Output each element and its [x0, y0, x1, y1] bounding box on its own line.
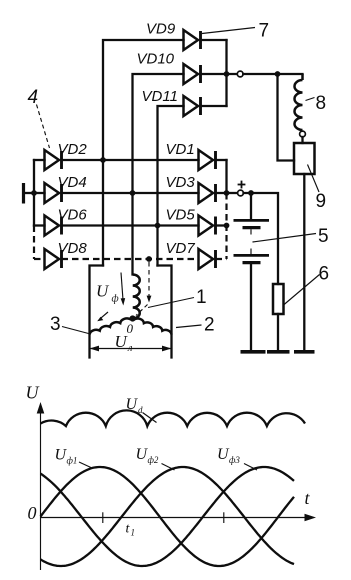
svg-text:U: U — [115, 332, 129, 351]
battery GB (5) cell 1 — [234, 220, 270, 227]
label 1 with leader to middle coil — [148, 287, 207, 308]
axis U (vertical) — [37, 402, 45, 570]
diode VD11 — [184, 96, 201, 116]
ground (chassis bar under resistor) — [267, 350, 290, 354]
terminal field brush (circle) — [300, 131, 306, 137]
svg-text:1: 1 — [196, 287, 207, 308]
diode VD10 — [184, 64, 201, 84]
stator coil phase 1 (left) — [90, 318, 131, 334]
svg-text:d: d — [138, 405, 143, 415]
axis t (horizontal) — [41, 514, 317, 522]
wire field terminal to field winding — [243, 73, 302, 75]
label Ud with leader — [126, 396, 157, 423]
svg-text:VD3: VD3 — [166, 174, 196, 191]
bus negative dashed continuation to VD8 — [33, 226, 35, 260]
node 0 (star point) — [130, 315, 136, 321]
curve phase voltage U-ph1 — [41, 467, 295, 566]
label 9 with leader to regulator — [308, 165, 327, 213]
diode VD9 — [184, 30, 201, 50]
diode VD2 — [45, 150, 62, 170]
diode VD5 — [199, 216, 216, 236]
voltage regulator 9 (box) — [294, 143, 315, 174]
dimension line U-line (winding span) — [90, 346, 172, 352]
svg-text:5: 5 — [318, 226, 329, 247]
tick t1 — [102, 512, 104, 523]
wire row VD1 cathode stub — [216, 159, 227, 161]
wire row VD2 anode stub — [34, 159, 45, 161]
diode VD8 — [45, 249, 62, 269]
wire row VD3 cathode stub — [216, 192, 227, 194]
junction battery tap — [248, 190, 254, 196]
stator winding outline left — [90, 266, 104, 358]
stator winding outline right — [158, 266, 172, 358]
svg-text:ф: ф — [112, 294, 119, 305]
label 6 with leader to resistor — [284, 264, 330, 306]
junction positive bus / VD5 — [224, 223, 230, 229]
bus positive (right, cathodes VD1 VD3) — [225, 160, 227, 193]
svg-text:VD4: VD4 — [58, 174, 87, 191]
diode VD6 — [45, 216, 62, 236]
svg-text:U: U — [96, 282, 110, 301]
svg-text:2: 2 — [204, 315, 215, 336]
wire brush to regulator — [301, 137, 303, 143]
label 7 with leader to VD9 — [202, 21, 269, 42]
label U-ph1 with leader — [55, 447, 93, 469]
curve phase voltage U-ph3 — [41, 467, 295, 566]
label 5 with leader to battery — [253, 226, 329, 247]
svg-text:0: 0 — [28, 503, 37, 523]
junction phase 3 / row VD6-VD5 — [155, 223, 161, 229]
svg-text:VD7: VD7 — [166, 240, 196, 257]
svg-text:ф1: ф1 — [67, 456, 78, 466]
label 4 with dashed leader to VD2 — [28, 87, 50, 148]
curve rectified output Ud (ripple) — [41, 410, 306, 426]
wire row VD4 anode stub — [34, 192, 45, 194]
wire row VD6-VD5 phase link — [62, 224, 199, 226]
svg-text:VD8: VD8 — [58, 240, 88, 257]
bus positive dashed continuation (VD5 VD7) — [225, 193, 227, 259]
diode VD1 — [199, 150, 216, 170]
wire ground stub — [24, 192, 35, 194]
wire phase 3 (from VD11 anode down to stator winding) — [158, 106, 184, 266]
svg-text:3: 3 — [50, 314, 61, 335]
stator coil phase 2 (middle) — [133, 275, 140, 319]
diode VD4 — [45, 183, 62, 203]
svg-text:VD9: VD9 — [146, 21, 176, 38]
ground (chassis bar, left) — [22, 183, 25, 204]
svg-text:VD5: VD5 — [166, 207, 196, 224]
wire phase 1 (from VD9 anode down to stator winding) — [103, 40, 184, 266]
arrow current in left coil — [97, 312, 108, 321]
wire phase 2 (from VD10 anode down to stator middle coil) — [133, 74, 184, 275]
junction field wire / regulator branch — [275, 71, 281, 77]
wire VD11 cathode to auxiliary bus — [202, 105, 227, 107]
svg-text:VD2: VD2 — [58, 141, 88, 158]
svg-text:9: 9 — [316, 191, 327, 212]
wire row VD2-VD1 phase link — [62, 159, 199, 161]
inductor 8 (field winding) — [301, 74, 304, 80]
ground (chassis bar under regulator) — [294, 350, 315, 354]
junction neutral / dashed row VD8-VD7 — [146, 256, 152, 262]
terminal + output (circle) — [227, 192, 238, 194]
wire VD10 cathode to field terminal — [202, 73, 237, 75]
label 2 with leader to right coil — [176, 315, 215, 336]
svg-text:0: 0 — [127, 321, 134, 336]
wire row VD7 dashed cathode stub — [216, 258, 227, 260]
wire to voltage regulator input — [278, 74, 295, 161]
svg-text:VD11: VD11 — [142, 88, 178, 105]
resistor 6 (load) — [273, 284, 284, 314]
wire resistor to ground — [277, 314, 279, 351]
svg-text:л: л — [127, 343, 133, 354]
svg-text:6: 6 — [319, 264, 330, 285]
svg-text:U: U — [126, 396, 139, 413]
tick second — [223, 512, 225, 523]
diode VD7 — [199, 249, 216, 269]
wire auxiliary rectifier bus — [225, 40, 227, 106]
svg-text:7: 7 — [259, 21, 270, 42]
curve phase voltage U-ph2 — [41, 467, 295, 566]
wire row VD8 dashed anode stub — [34, 258, 45, 260]
svg-text:1: 1 — [131, 528, 136, 538]
wire battery positive lead — [250, 193, 252, 219]
wire dashed neutral lead with arrow — [136, 262, 151, 316]
label U-ph3 with leader — [217, 446, 257, 470]
label + polarity — [238, 181, 246, 189]
svg-text:ф2: ф2 — [148, 455, 159, 465]
wire battery negative lead — [250, 264, 252, 350]
wire row VD5 cathode stub — [216, 224, 227, 226]
junction phase 1 / row VD2-VD1 — [100, 157, 106, 163]
svg-text:U: U — [26, 383, 40, 403]
wire row VD6 anode stub — [34, 224, 45, 226]
junction left bus / ground stub — [31, 190, 37, 196]
wire regulator to ground — [303, 174, 305, 351]
label U-ph2 with leader — [136, 446, 175, 470]
wire battery inter-cell stubs — [250, 229, 252, 254]
svg-text:VD1: VD1 — [166, 141, 195, 158]
stator coil phase 3 (right) — [135, 319, 172, 335]
wire output to load branch — [244, 193, 279, 284]
svg-text:8: 8 — [316, 93, 327, 114]
junction phase 2 / row VD4-VD3 — [130, 190, 136, 196]
ground (chassis bar under battery) — [241, 350, 266, 354]
terminal field output (circle) — [237, 71, 243, 77]
label 3 with leader to left coil — [50, 314, 89, 335]
wire row VD8-VD7 dashed neutral link — [62, 258, 199, 260]
bus negative (left, anodes of VD2 VD4 VD6) — [33, 160, 35, 226]
wire row VD4-VD3 phase link — [62, 192, 199, 194]
diode VD3 — [199, 183, 216, 203]
junction auxiliary bus / VD10 — [224, 71, 230, 77]
svg-text:VD10: VD10 — [137, 51, 175, 68]
wire VD9 cathode to auxiliary bus — [202, 39, 227, 41]
svg-text:ф3: ф3 — [229, 455, 240, 465]
svg-text:VD6: VD6 — [58, 207, 88, 224]
battery GB (5) cell 2 — [234, 255, 270, 262]
label 8 with leader to field winding — [306, 93, 327, 114]
junction positive bus / output row — [224, 190, 230, 196]
arrow U-phase (voltage arrow) — [121, 273, 126, 306]
